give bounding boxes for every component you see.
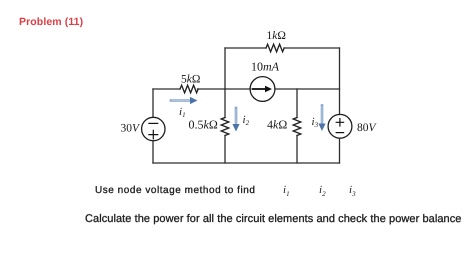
wire: top rail left segment — [225, 47, 266, 49]
voltage source 80V circle — [328, 114, 352, 138]
svg-text:i3: i3 — [312, 116, 319, 129]
resistor 0.5k ohm (vertical) — [221, 118, 229, 136]
resistor 5k ohm — [180, 85, 198, 93]
svg-text:10mA: 10mA — [251, 60, 280, 74]
svg-text:4kΩ: 4kΩ — [267, 118, 287, 132]
svg-text:i1: i1 — [179, 106, 186, 119]
wire: right rail top — [339, 48, 341, 115]
current arrow i2 — [235, 108, 238, 126]
resistor 4k ohm (vertical) — [293, 118, 301, 136]
30V minus sign — [149, 122, 158, 124]
question line 2 — [85, 212, 461, 224]
voltage source 30V circle — [142, 117, 165, 140]
wire: middle rail left — [153, 88, 180, 90]
svg-text:1kΩ: 1kΩ — [267, 30, 286, 42]
current arrow i3 — [321, 106, 324, 126]
wire: vertical node A to top rail — [224, 48, 226, 89]
svg-text:0.5kΩ: 0.5kΩ — [189, 118, 218, 132]
svg-text:80V: 80V — [357, 122, 378, 134]
wire: left rail top — [152, 89, 154, 117]
current arrow i1 — [171, 99, 192, 102]
80V minus sign — [336, 132, 343, 134]
resistor 1k ohm (top) — [266, 44, 284, 52]
wire: bottom rail — [153, 162, 340, 164]
question line 1 — [95, 184, 255, 195]
wire: left rail bottom — [152, 141, 154, 163]
wire: 4k branch bottom — [296, 136, 298, 164]
svg-text:5kΩ: 5kΩ — [181, 74, 200, 86]
current source 10mA circle — [250, 77, 275, 102]
wire: 4k branch top — [296, 89, 298, 118]
title Problem (11) — [19, 16, 83, 28]
svg-text:i2: i2 — [243, 114, 250, 127]
80V plus sign — [336, 119, 343, 126]
wire: middle rail center — [198, 88, 251, 90]
i1 i2 i3 in question — [283, 184, 290, 198]
wire: middle rail right — [275, 88, 340, 90]
svg-text:30V: 30V — [121, 123, 142, 135]
current source arrow — [253, 88, 267, 90]
wire: right rail bottom — [339, 138, 341, 163]
wire: 0.5k branch top — [224, 89, 226, 118]
wire: top rail right segment — [284, 47, 340, 49]
wire: 0.5k branch bottom — [224, 136, 226, 164]
30V plus sign — [149, 130, 158, 138]
